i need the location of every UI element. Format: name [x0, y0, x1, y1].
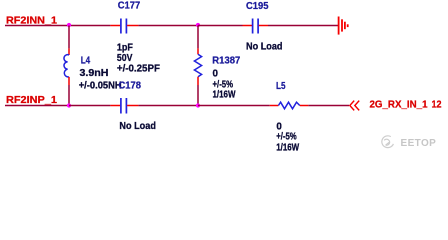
wire junction B down to R1387	[197, 26, 199, 49]
svg-text:+/-0.05NH: +/-0.05NH	[79, 80, 122, 91]
off-page connector chevrons	[350, 101, 359, 111]
wire junction D to L5	[198, 105, 270, 107]
wire C178 to junction D	[138, 105, 198, 107]
svg-text:+/-0.25PF: +/-0.25PF	[117, 64, 160, 75]
svg-text:1/16W: 1/16W	[276, 142, 300, 153]
svg-text:+/-5%: +/-5%	[276, 132, 297, 143]
junction node D (bottom right)	[196, 103, 200, 107]
EETOP watermark logo	[382, 136, 394, 148]
wire top-left under label to junction	[5, 25, 69, 27]
capacitor C195	[243, 19, 269, 34]
wire bottom-left under label to junction	[5, 105, 69, 107]
wire C195 to ground	[268, 25, 338, 27]
svg-text:C178: C178	[119, 80, 142, 91]
svg-text:RF2INP_1: RF2INP_1	[6, 95, 58, 106]
svg-text:0: 0	[213, 68, 219, 79]
resistor R1387	[194, 48, 201, 85]
svg-text:C177: C177	[118, 1, 141, 12]
svg-text:1/16W: 1/16W	[213, 89, 237, 100]
svg-text:L4: L4	[81, 55, 91, 66]
svg-text:12: 12	[432, 100, 442, 111]
svg-text:3.9nH: 3.9nH	[80, 68, 109, 79]
svg-text:2G_RX_IN_1: 2G_RX_IN_1	[370, 100, 429, 111]
wire R1387 to bottom junction	[197, 85, 199, 106]
wire L5 to off-page connector	[308, 105, 349, 107]
svg-text:No Load: No Load	[119, 121, 156, 132]
wire junction C to C178	[69, 105, 110, 107]
wire junction B to C195	[198, 25, 243, 27]
svg-text:50V: 50V	[117, 53, 133, 64]
svg-text:L5: L5	[276, 81, 286, 92]
svg-text:No Load: No Load	[246, 42, 283, 53]
wire junction A down to L4	[68, 26, 70, 49]
wire junction to C177	[69, 25, 110, 27]
inductor L5	[270, 102, 309, 109]
wire L4 to bottom junction	[68, 85, 70, 106]
capacitor C178	[110, 98, 138, 114]
svg-text:1pF: 1pF	[117, 42, 133, 53]
svg-text:EETOP: EETOP	[401, 138, 437, 149]
junction node B (top right)	[196, 23, 200, 27]
svg-text:R1387: R1387	[212, 55, 241, 66]
wire C177 to junction B	[138, 25, 198, 27]
junction node A (top left)	[67, 23, 71, 27]
junction node C (bottom left)	[67, 103, 71, 107]
capacitor C177	[110, 19, 138, 34]
inductor L4	[64, 48, 69, 85]
svg-text:C195: C195	[246, 1, 269, 12]
ground	[339, 17, 348, 35]
